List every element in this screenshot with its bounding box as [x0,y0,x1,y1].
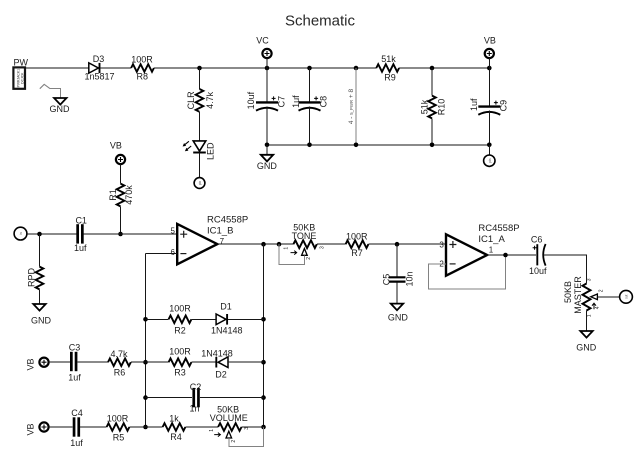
wire D2 to bus [228,361,264,363]
svg-text:C9: C9 [499,100,509,112]
svg-text:R10: R10 [437,99,447,116]
svg-text:in: in [19,232,23,235]
wire op-amp B output [217,243,293,245]
wire R5 to R4 [129,426,162,428]
resistor R4 1k [163,414,186,442]
svg-text:C4: C4 [71,408,83,418]
capacitor C2 [189,382,201,414]
svg-text:1uf: 1uf [74,243,87,253]
potentiometer VOLUME 50KB [209,405,250,443]
input jack [14,227,27,240]
resistor R1 470k [108,184,134,234]
svg-text:CLR: CLR [186,91,196,110]
resistor R6 4.7k [108,349,131,378]
svg-text:1uf: 1uf [469,98,479,111]
node junction VC [265,66,270,71]
svg-text:D1: D1 [220,302,232,312]
svg-text:51k: 51k [420,99,430,114]
node junction R10 [430,66,435,71]
wire PW to D3 [25,67,89,69]
node junction C5 [395,242,400,247]
wire left feedback bus [145,254,147,427]
power VB (top right) [484,36,496,68]
ground (RPD) [31,304,52,325]
potentiometer TONE 50KB [284,222,326,259]
capacitor C1 [74,215,87,253]
resistor R10 [420,68,447,145]
svg-text:1n5817: 1n5817 [84,72,114,82]
ground (C5) [388,304,409,323]
svg-text:MASTER: MASTER [573,276,583,314]
resistor CLR 4.7k [186,68,215,141]
svg-text:C8: C8 [319,96,329,108]
svg-text:VC: VC [256,36,269,46]
power VB (row4) [26,422,73,435]
svg-text:RC4558P: RC4558P [207,214,248,225]
svg-text:D2: D2 [215,370,227,380]
wire volume wiper loop [229,427,264,447]
svg-text:1: 1 [209,429,215,432]
svg-text:IC1_B: IC1_B [207,225,233,236]
svg-text:5: 5 [171,226,176,235]
svg-text:100R: 100R [169,347,191,357]
wire right feedback bus [263,244,265,427]
wire R8 to R9 [154,67,376,69]
wire C3 to R6 [77,361,108,363]
svg-text:3: 3 [320,246,326,249]
svg-text:GND: GND [388,312,409,322]
node junction PWR label [354,66,359,71]
node junction rail PWR label [354,143,359,148]
svg-text:R9: R9 [384,73,396,83]
svg-text:pin: pin [488,158,492,162]
svg-text:51k: 51k [381,54,396,64]
svg-text:1n: 1n [189,404,199,414]
resistor R2 [169,304,192,336]
svg-text:R3: R3 [174,368,186,378]
node junction CLR [197,66,202,71]
ground (power rail) [257,145,278,171]
node junction VB/C9 [487,66,492,71]
capacitor C3 [68,342,81,382]
svg-text:100R: 100R [131,54,153,64]
svg-text:GND: GND [257,161,278,171]
svg-text:470k: 470k [124,185,134,205]
svg-text:LED: LED [206,142,216,160]
wire C6 to master pot [544,255,587,284]
capacitor C8 [291,68,328,145]
svg-text:4.7k: 4.7k [110,349,128,359]
capacitor C6 [529,234,547,276]
svg-text:3: 3 [586,278,592,281]
svg-text:R6: R6 [114,368,126,378]
wire TONE to R7 [317,243,346,245]
wire R9 to VB [399,67,489,69]
capacitor C5 [382,244,415,303]
wire op-amp A output [487,254,536,256]
svg-text:1uf: 1uf [68,373,81,383]
wire D1 to bus [228,318,264,320]
wire tone wiper loop [279,244,304,264]
node junction rail R10 [430,143,435,148]
capacitor C7 [246,68,287,145]
capacitor C9 [469,68,508,145]
svg-text:6: 6 [171,248,176,257]
power VB (mid) [110,141,125,184]
svg-text:4.7k: 4.7k [205,91,215,109]
svg-text:GND: GND [31,315,52,325]
svg-text:VOLUME: VOLUME [210,413,248,423]
svg-text:4: 4 [595,306,601,309]
output jack [620,290,633,303]
wire row1 left [146,318,169,320]
wire row C2 left [146,397,193,399]
svg-text:2: 2 [231,440,237,443]
node junction output bus [261,242,266,247]
node junction R1 [118,232,123,237]
svg-text:pin: pin [198,181,202,185]
svg-text:100R: 100R [169,304,191,314]
node junction C8 [307,66,312,71]
svg-text:R8: R8 [137,72,149,82]
svg-text:10n: 10n [405,271,415,286]
svg-text:1k: 1k [169,414,179,424]
svg-text:D3: D3 [93,54,105,64]
svg-text:R5: R5 [113,433,125,443]
wire master pot to ground [586,311,588,331]
svg-text:C5: C5 [382,274,392,286]
svg-text:100R: 100R [346,232,368,242]
svg-text:1: 1 [489,245,494,254]
svg-text:DCJCK: DCJCK [21,72,25,84]
wire D3 to R8 [100,67,131,69]
svg-text:GND: GND [576,342,597,352]
svg-text:R1: R1 [108,189,118,201]
svg-text:1N4148: 1N4148 [201,349,233,359]
svg-text:GND: GND [50,104,71,114]
pin (rail) [484,145,495,167]
resistor RPD [26,234,43,304]
svg-text:2: 2 [306,257,312,260]
resistor R8 [131,54,154,81]
svg-text:VB: VB [110,141,122,151]
capacitor C4 [70,408,83,448]
svg-text:C1: C1 [75,215,87,225]
node junction tone loop [277,242,282,247]
svg-text:1: 1 [586,314,592,317]
resistor R5 [107,414,130,443]
svg-text:R4: R4 [170,432,182,442]
wire R3 to D2 [191,361,216,363]
node junction RPD [37,232,42,237]
svg-text:1uf: 1uf [291,95,301,108]
connector PW [13,58,28,89]
svg-text:VB: VB [26,358,36,370]
wire R6 to R3 [131,361,169,363]
pin (LED cathode) [194,178,205,189]
jack switch stub [40,84,50,88]
diode D1 [211,302,243,336]
svg-text:50KB: 50KB [563,281,573,303]
svg-text:C6: C6 [531,234,543,244]
svg-text:R2: R2 [174,326,186,336]
svg-text:Schematic: Schematic [285,13,356,30]
svg-text:VB: VB [484,36,496,46]
wire R2 to D1 [191,318,216,320]
svg-text:PW: PW [14,58,29,68]
wire R7 to op-amp pin3 [368,243,446,245]
svg-text:3: 3 [439,241,444,250]
node junction bus rows [143,317,148,322]
potentiometer MASTER 50KB [563,276,605,317]
net label 4-5 PWR +8 [348,68,356,145]
svg-text:1N4148: 1N4148 [211,326,243,336]
svg-text:10uf: 10uf [246,91,256,109]
wire C4 to R5 [80,426,107,428]
svg-text:1: 1 [284,247,290,250]
svg-text:1uf: 1uf [70,438,83,448]
op-amp IC1_A [439,223,519,276]
wire pin6 [146,253,178,255]
power VB (row3) [26,358,70,371]
svg-text:IC1_A: IC1_A [478,234,505,245]
node junction rail C7 [265,143,270,148]
svg-text:VB: VB [26,423,36,435]
wire wiper to out jack [597,296,619,298]
power VC [256,36,271,68]
svg-text:100R: 100R [107,414,129,424]
diode D3 [84,54,114,82]
wire op-amp A feedback loop [428,255,505,289]
ground (PW jack) [50,98,71,114]
svg-text:10uf: 10uf [529,266,547,276]
LED [183,141,216,160]
wire bottom power rail [267,144,489,146]
svg-text:out: out [625,294,629,299]
svg-text:RC4558P: RC4558P [478,223,519,234]
wire LED to pin [199,153,201,178]
svg-text:C2: C2 [190,382,202,392]
wire C1 to op-amp pin5 [84,233,178,235]
node junction rail C9 [487,143,492,148]
svg-text:C3: C3 [69,342,81,352]
svg-text:TONE: TONE [292,231,317,241]
node junction A output [503,253,508,258]
svg-text:4 - 5_PWR + 8: 4 - 5_PWR + 8 [348,88,355,124]
wire R4 to volume pot [185,426,218,428]
svg-text:RPD: RPD [26,268,36,288]
ground (master) [576,331,597,352]
wire jack to C1 [27,233,77,235]
node junction rail C8 [307,143,312,148]
diode D2 [201,349,233,380]
wire C2 to bus [200,397,264,399]
svg-text:2: 2 [598,289,604,292]
wire volume pot to bus [242,426,264,428]
op-amp IC1_B [171,214,249,264]
svg-text:R7: R7 [351,248,363,258]
resistor R7 [346,232,369,258]
resistor R9 [376,54,399,83]
svg-text:C7: C7 [277,96,287,108]
resistor R3 [169,347,192,378]
